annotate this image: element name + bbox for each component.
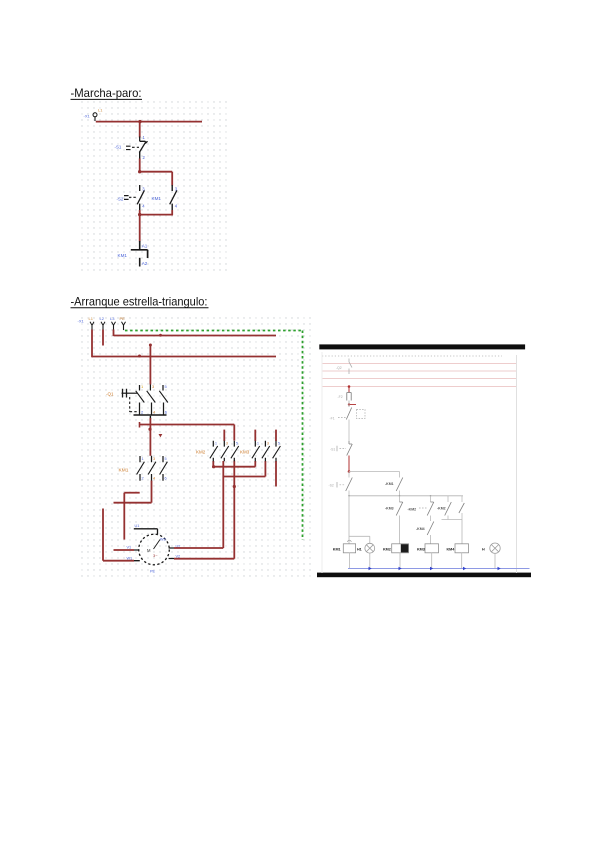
wire breaker out xyxy=(149,416,151,419)
wire L2 down stub xyxy=(102,325,104,329)
sub wire xyxy=(442,519,463,521)
svg-text:-X1: -X1 xyxy=(78,319,85,324)
wire L3 down xyxy=(113,325,115,329)
node 3 xyxy=(348,470,351,473)
node on V7 xyxy=(233,485,236,488)
wire H2 phase L1 xyxy=(92,356,276,358)
wire H7 to motor xyxy=(114,549,135,551)
wire H3 to KM2 xyxy=(140,425,235,441)
wire L1 down xyxy=(91,325,93,329)
wire branch top horizontal xyxy=(140,171,173,173)
svg-text:3~: 3~ xyxy=(153,553,158,558)
coil KM1 xyxy=(343,544,355,553)
svg-text:3: 3 xyxy=(226,442,228,446)
wire V5 xyxy=(102,509,104,561)
svg-text:1: 1 xyxy=(142,457,144,461)
breaker Q1 pole pins top xyxy=(140,385,164,391)
contactor KM2 ticks bottom xyxy=(213,458,234,461)
breaker Q1 handle xyxy=(122,392,138,394)
motor top terminal xyxy=(134,529,158,535)
rail arrows xyxy=(369,567,372,570)
contact KM3 NC xyxy=(399,496,401,502)
phase line 4 xyxy=(323,386,517,388)
svg-text:3: 3 xyxy=(153,457,155,461)
contact S2 NO pushbutton xyxy=(139,185,141,191)
wire V1 to breaker xyxy=(149,345,151,385)
wire down to S1 xyxy=(139,122,141,138)
svg-text:L1: L1 xyxy=(98,108,103,113)
switch Q2 glyph xyxy=(349,359,352,375)
wire branch bottom horizontal xyxy=(140,214,173,216)
terminal L1 xyxy=(90,322,94,326)
wire H5 xyxy=(124,492,139,494)
svg-text:-S1: -S1 xyxy=(330,448,335,452)
contact KM2b NO xyxy=(447,496,449,502)
coil KM4 xyxy=(455,544,469,553)
svg-text:L3: L3 xyxy=(110,316,115,321)
breaker Q1 link dashes xyxy=(129,397,131,412)
contactor KM2 ticks top xyxy=(213,441,234,447)
panel dotted top rule xyxy=(322,355,502,357)
wire down red xyxy=(348,456,350,472)
svg-text:KM2: KM2 xyxy=(196,450,206,455)
breaker Q1 blades xyxy=(136,391,168,403)
panel bottom bar xyxy=(317,573,531,578)
contactor KM1 blades xyxy=(137,462,168,475)
contactor KM3 blades xyxy=(252,446,281,458)
svg-text:-KM2: -KM2 xyxy=(408,508,417,512)
svg-text:L1: L1 xyxy=(89,316,94,321)
wire H8 motor right up xyxy=(174,477,223,549)
node on H2 xyxy=(138,355,141,358)
svg-text:H: H xyxy=(482,547,485,551)
svg-text:-X1: -X1 xyxy=(84,114,91,119)
svg-text:A2: A2 xyxy=(142,261,148,266)
overload F1 NC xyxy=(348,401,350,408)
wire H10 xyxy=(213,466,255,468)
svg-text:W2: W2 xyxy=(160,538,166,542)
svg-text:5: 5 xyxy=(278,442,280,446)
svg-text:6: 6 xyxy=(165,477,167,481)
svg-text:-KM1: -KM1 xyxy=(385,482,394,486)
wire H4 left xyxy=(114,502,152,504)
wire H3 end cap xyxy=(139,422,141,428)
svg-text:KM2: KM2 xyxy=(383,547,391,551)
coil KM2 xyxy=(392,544,409,553)
contactor KM1 pole ticks bottom xyxy=(140,474,163,481)
phase line 1 xyxy=(323,363,517,365)
svg-text:KM1: KM1 xyxy=(118,253,128,258)
motor left ticks xyxy=(134,550,140,561)
svg-text:-S2: -S2 xyxy=(117,197,124,202)
heading: -Arranque estrella-triangulo: xyxy=(71,294,209,308)
svg-text:KM1: KM1 xyxy=(119,468,129,474)
svg-text:KM3: KM3 xyxy=(240,450,250,455)
contact KM2c xyxy=(461,496,463,502)
marker red triangle xyxy=(159,434,163,437)
svg-text:-S2: -S2 xyxy=(329,484,334,488)
lamp H2 xyxy=(490,543,500,553)
svg-text:-Marcha-paro:: -Marcha-paro: xyxy=(71,86,142,100)
svg-text:PE: PE xyxy=(120,316,126,321)
KM2 feed stubs xyxy=(223,430,225,441)
svg-text:-F2: -F2 xyxy=(338,395,343,399)
contactor KM3 ticks top xyxy=(255,441,276,447)
svg-text:V1: V1 xyxy=(127,546,132,550)
panel top bar xyxy=(319,344,525,349)
breaker Q1 pole pins bottom xyxy=(140,403,164,415)
node rejoin xyxy=(138,213,141,216)
KM3 feed stubs xyxy=(255,430,276,441)
contact KM4 NC lower xyxy=(430,516,432,522)
drop wires to rail xyxy=(349,553,495,569)
lamp feed wire xyxy=(349,536,370,543)
motor M1 circle xyxy=(139,534,170,565)
svg-text:-KM3: -KM3 xyxy=(385,507,394,511)
node 2 xyxy=(348,403,350,405)
button S2 NO xyxy=(348,472,350,478)
wire V2 breaker to KM1 xyxy=(149,418,151,456)
panel right border xyxy=(516,355,518,573)
svg-text:KM1: KM1 xyxy=(152,196,162,201)
motor right ticks xyxy=(169,548,175,559)
node split xyxy=(138,170,141,173)
contactor KM1 pole ticks top xyxy=(140,456,163,463)
coil KM3 xyxy=(425,544,439,553)
wire down xyxy=(348,420,350,442)
svg-text:1: 1 xyxy=(215,442,217,446)
svg-text:2: 2 xyxy=(142,477,144,481)
button S1 NC xyxy=(349,441,352,444)
wire down to coil xyxy=(139,215,141,242)
wire S1 to split node xyxy=(139,159,141,173)
wire KM1 out down xyxy=(151,481,153,503)
contact S1 NC pushbutton xyxy=(140,137,146,142)
branch top wire xyxy=(349,471,400,473)
svg-text:4: 4 xyxy=(153,477,155,481)
wire H9 motor lowright up xyxy=(174,461,234,559)
svg-text:W1: W1 xyxy=(127,557,133,561)
svg-text:5: 5 xyxy=(236,442,238,446)
wire PE green vertical xyxy=(302,331,304,541)
contact KM1 aux NO xyxy=(171,185,173,191)
terminal X1 xyxy=(93,113,97,117)
wire V9 stub xyxy=(275,461,277,487)
breaker Q1 bottom bar xyxy=(134,414,167,416)
terminal PE xyxy=(122,322,126,326)
branch 1 wire xyxy=(348,496,350,544)
wire H1 phase L3 xyxy=(114,335,277,337)
svg-text:L2: L2 xyxy=(100,316,105,321)
panel left border xyxy=(321,352,323,573)
svg-text:A1: A1 xyxy=(142,244,148,249)
wire right branch down xyxy=(171,172,173,186)
svg-text:-Q1: -Q1 xyxy=(106,392,114,397)
svg-text:-Arranque estrella-triangulo:: -Arranque estrella-triangulo: xyxy=(71,294,208,308)
node on H1 xyxy=(159,334,162,337)
node junction top xyxy=(138,120,141,123)
svg-text:-Q2: -Q2 xyxy=(336,366,342,370)
wire PE green horizontal xyxy=(125,330,303,332)
svg-text:PE: PE xyxy=(150,570,156,574)
svg-text:U1: U1 xyxy=(135,524,140,528)
wire PE stub xyxy=(123,325,125,330)
wire H6 to motor xyxy=(103,560,134,562)
svg-text:-F1: -F1 xyxy=(330,417,335,421)
node H3 xyxy=(148,428,151,431)
svg-text:KM1: KM1 xyxy=(333,547,341,551)
phase line 3 xyxy=(323,378,517,380)
wire V4 xyxy=(123,493,125,540)
svg-text:KM3: KM3 xyxy=(417,547,425,551)
wire right branch down xyxy=(171,210,173,215)
wire top horizontal xyxy=(96,121,202,123)
motor shaft line xyxy=(154,540,161,550)
svg-text:M: M xyxy=(147,548,151,553)
svg-text:-KM2: -KM2 xyxy=(437,507,446,511)
svg-text:KM4: KM4 xyxy=(447,547,456,551)
contact KM2 timer NC xyxy=(430,496,432,502)
wire live down xyxy=(348,387,350,393)
svg-text:H1: H1 xyxy=(357,547,362,551)
svg-text:3: 3 xyxy=(267,442,269,446)
neutral rail blue xyxy=(348,568,530,570)
grid schematic 1 xyxy=(79,101,229,271)
bus xyxy=(349,495,463,497)
lamp H1 xyxy=(365,543,375,553)
wire left branch down xyxy=(139,210,141,215)
wire H11 xyxy=(223,476,265,478)
svg-text:-S1: -S1 xyxy=(115,145,122,150)
svg-text:5: 5 xyxy=(165,457,167,461)
contact KM1 NO aux xyxy=(399,472,401,478)
coil KM1 xyxy=(139,241,141,250)
svg-text:-KM4: -KM4 xyxy=(416,527,425,531)
contactor KM3 ticks bottom xyxy=(255,458,276,461)
grid schematic 2 xyxy=(79,313,311,581)
terminal L2 xyxy=(101,322,105,326)
svg-text:1: 1 xyxy=(257,442,259,446)
node live xyxy=(348,385,351,388)
phase line 2 xyxy=(323,370,517,372)
heading: -Marcha-paro: xyxy=(71,86,143,100)
contactor KM2 blades xyxy=(210,446,239,458)
fuse F2 xyxy=(347,393,351,401)
terminal L3 xyxy=(112,322,116,326)
